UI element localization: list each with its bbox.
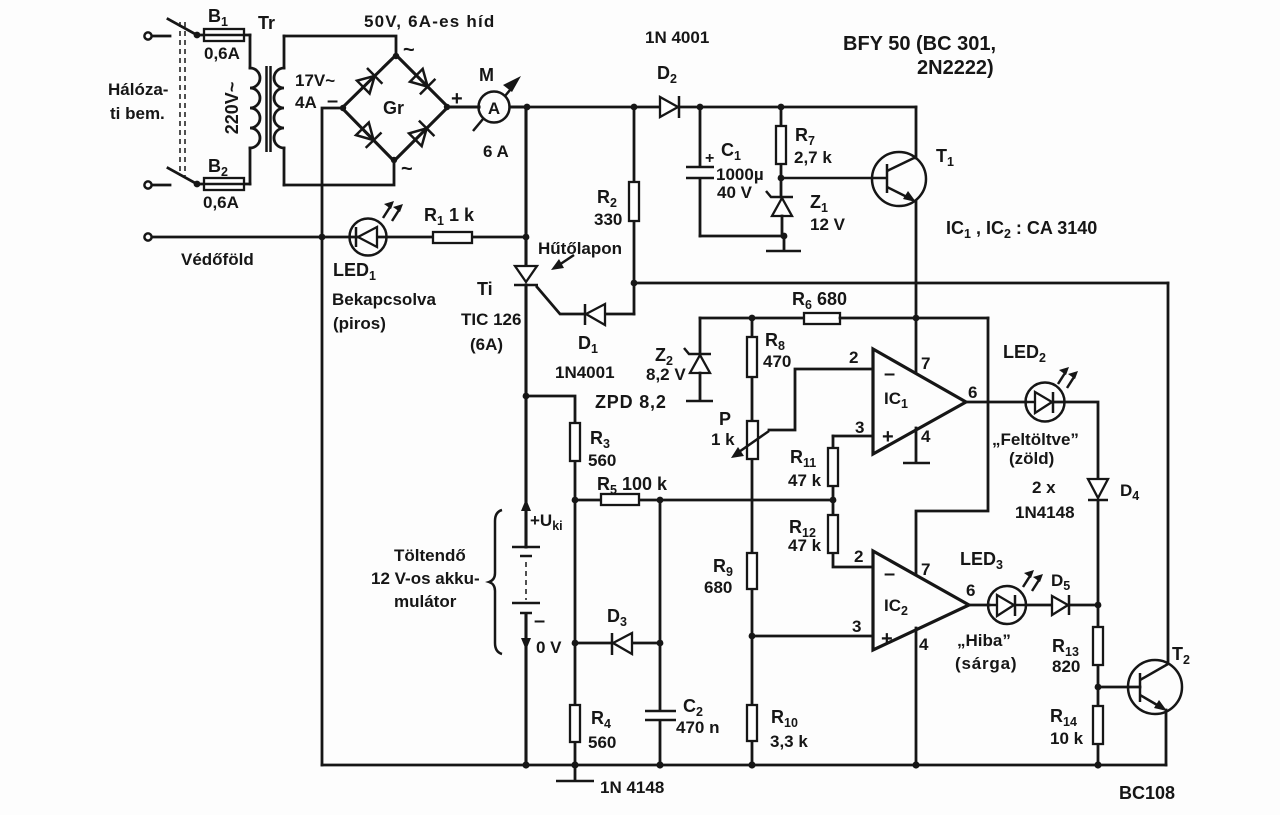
diode D5	[1026, 595, 1098, 615]
arrow +Uki	[521, 499, 531, 511]
svg-text:R5 100 k: R5 100 k	[597, 474, 668, 497]
svg-text:A: A	[488, 99, 500, 118]
svg-text:+: +	[705, 150, 714, 167]
wire V+ down to IC2 pin7	[916, 318, 988, 576]
svg-text:4A: 4A	[295, 93, 317, 112]
label D4	[1120, 481, 1139, 503]
wire to IC2 pin3	[752, 635, 873, 638]
wire thyristor anode	[524, 107, 527, 266]
node D5/D4/R13	[1095, 602, 1102, 609]
svg-text:1N4148: 1N4148	[1015, 503, 1075, 522]
wire IC2 output to LED3	[969, 604, 989, 607]
node left rail / Vedofold	[319, 234, 326, 241]
svg-text:3: 3	[852, 617, 861, 636]
svg-text:7: 7	[921, 560, 930, 579]
svg-text:–: –	[884, 363, 895, 385]
pin 7 (IC1)	[921, 354, 930, 373]
node D3 right / C2	[657, 640, 664, 647]
svg-text:Hálóza-: Hálóza-	[108, 80, 168, 99]
svg-text:BC108: BC108	[1119, 783, 1175, 803]
wire left rail	[321, 237, 324, 765]
resistor R6	[804, 313, 840, 324]
svg-text:40 V: 40 V	[717, 183, 753, 202]
label Feltoltve	[992, 430, 1079, 449]
label 1000u	[716, 165, 764, 184]
zener Z2	[684, 318, 713, 401]
bridge rectifier Gr frame	[342, 55, 448, 161]
svg-text:8,2 V: 8,2 V	[646, 365, 686, 384]
zener Z1	[766, 178, 793, 236]
label 12V	[810, 215, 846, 234]
svg-text:mulátor: mulátor	[394, 592, 457, 611]
resistor R8	[747, 318, 757, 421]
svg-text:1 k: 1 k	[711, 430, 735, 449]
svg-text:ZPD 8,2: ZPD 8,2	[595, 392, 667, 412]
svg-text:P: P	[719, 409, 731, 429]
diode D2	[660, 96, 679, 118]
label +Uki	[530, 511, 563, 533]
svg-text:0,6A: 0,6A	[204, 44, 240, 63]
resistor R3	[570, 423, 580, 643]
label 2,7k	[794, 148, 832, 167]
label D5	[1051, 571, 1070, 593]
svg-text:12 V: 12 V	[810, 215, 846, 234]
wire IC1 output to LED2	[966, 401, 1026, 404]
svg-text:6: 6	[966, 581, 975, 600]
label D2	[657, 63, 677, 86]
bridge vertex dots	[340, 53, 450, 163]
node R3/R5	[572, 497, 579, 504]
wire right rail down to T2 collector	[1167, 283, 1170, 663]
label 330	[594, 210, 622, 229]
battery cell plates	[512, 547, 540, 613]
bridge diode bottom-left	[356, 123, 382, 148]
node R9/R10/IC2 pin3	[749, 633, 756, 640]
svg-text:47 k: 47 k	[788, 471, 822, 490]
node R2 top	[631, 104, 638, 111]
svg-text:–: –	[884, 563, 895, 585]
transformer core	[267, 66, 271, 152]
svg-text:Gr: Gr	[383, 98, 404, 118]
wire T1 emitter to IC1 pin7	[915, 201, 918, 374]
LED1 light arrows	[383, 201, 403, 221]
node R1 right	[523, 234, 530, 241]
svg-text:220V~: 220V~	[222, 82, 242, 135]
resistor R9	[747, 500, 757, 636]
svg-text:ti bem.: ti bem.	[110, 104, 165, 123]
svg-text:680: 680	[704, 578, 732, 597]
label R5 100k	[597, 474, 668, 497]
node R10 bottom	[748, 761, 755, 768]
label Halozati bem.	[108, 80, 168, 123]
resistor R14	[1093, 687, 1103, 765]
label B1	[208, 6, 228, 29]
svg-text:„Hiba”: „Hiba”	[957, 631, 1011, 650]
label 2x 1N4148	[1015, 478, 1075, 522]
label D3	[607, 606, 627, 629]
terminal mains N	[144, 181, 170, 188]
label 820	[1052, 657, 1080, 676]
svg-text:0,6A: 0,6A	[203, 193, 239, 212]
node R2 bottom / D1	[631, 280, 638, 287]
label 560 (R3)	[588, 451, 616, 470]
node T1 emitter / IC supply	[913, 315, 920, 322]
op-amp IC2	[873, 551, 969, 650]
wire P wiper to IC1 pin2	[769, 369, 873, 430]
node D3 left	[572, 640, 579, 647]
svg-text:6 A: 6 A	[483, 142, 509, 161]
thyristor Ti	[514, 266, 585, 314]
label Tr	[258, 13, 275, 33]
label BC108	[1119, 783, 1175, 803]
svg-text:2: 2	[849, 348, 858, 367]
resistor R2	[629, 107, 639, 283]
svg-text:M: M	[479, 65, 494, 85]
node R4 bottom	[571, 761, 578, 768]
label 1k (P)	[711, 430, 735, 449]
terminal Vedofold	[144, 233, 151, 240]
svg-text:4: 4	[919, 635, 929, 654]
node C1/Z1 ground	[781, 233, 788, 240]
label IC1, IC2: CA 3140	[946, 218, 1097, 241]
node R7 top	[778, 104, 785, 111]
diode D4	[1088, 479, 1108, 605]
label C1	[721, 140, 741, 163]
label LED1	[333, 260, 376, 283]
node C2 bottom	[656, 761, 663, 768]
wire B1 to transformer	[197, 34, 250, 37]
label 0V	[536, 638, 562, 657]
svg-text:(zöld): (zöld)	[1009, 449, 1054, 468]
label Z2	[655, 345, 673, 368]
diode D3	[575, 633, 660, 655]
label (piros)	[333, 314, 386, 333]
label plus (bridge)	[451, 88, 463, 110]
node R11/R12	[830, 497, 837, 504]
svg-text:17V~: 17V~	[295, 71, 335, 90]
label R2	[597, 187, 617, 210]
svg-text:10 k: 10 k	[1050, 729, 1084, 748]
label T1	[936, 146, 954, 169]
pin 2 (IC2)	[854, 547, 863, 566]
svg-text:Tr: Tr	[258, 13, 275, 33]
label B2	[208, 156, 228, 179]
svg-text:2: 2	[854, 547, 863, 566]
svg-text:470 n: 470 n	[676, 718, 719, 737]
label 47k (R11)	[788, 471, 822, 490]
node R13/R14/T2 base	[1095, 684, 1102, 691]
wire top rail	[527, 106, 916, 109]
svg-text:(piros): (piros)	[333, 314, 386, 333]
wire bridge plus to ammeter	[448, 105, 479, 108]
label Toltendo 12V-os akkumulator	[371, 546, 480, 611]
node R5 right	[657, 497, 664, 504]
ammeter M	[473, 76, 521, 131]
label R10	[771, 707, 798, 730]
svg-text:~: ~	[403, 39, 415, 61]
label ~ bottom	[401, 158, 413, 180]
label 1N4148 (D3)	[600, 778, 664, 797]
wire R3 branch	[526, 396, 575, 423]
label R9	[713, 556, 733, 579]
svg-text:1N 4001: 1N 4001	[645, 28, 709, 47]
pin 4 (IC1)	[921, 427, 931, 446]
label (zold)	[1009, 449, 1054, 468]
label T2	[1172, 644, 1190, 667]
label 10k	[1050, 729, 1084, 748]
fuse B2	[204, 178, 244, 190]
resistor R7	[776, 107, 786, 178]
label 220V~	[222, 82, 242, 135]
ground (IC1 pin4)	[903, 428, 930, 463]
resistor R11	[828, 436, 838, 500]
label R7	[795, 125, 815, 148]
potentiometer P	[731, 421, 769, 500]
label 3,3k	[770, 732, 808, 751]
ground (Z1/C1)	[766, 236, 801, 251]
svg-text:R1 1 k: R1 1 k	[424, 205, 475, 228]
label 560 (R4)	[588, 733, 616, 752]
pin 4 (IC2)	[919, 635, 929, 654]
brace battery	[489, 510, 502, 654]
wire bottom ground rail	[322, 764, 1166, 767]
label minus (bridge)	[327, 90, 338, 112]
transistor T2	[1128, 660, 1182, 765]
wire gate rail to right	[634, 282, 1168, 285]
svg-text:560: 560	[588, 451, 616, 470]
label R8	[765, 330, 785, 353]
node R14 bottom	[1094, 761, 1101, 768]
label ~ top	[403, 39, 415, 61]
wire LED2 to D4	[1054, 402, 1098, 479]
label R11	[790, 447, 816, 470]
svg-text:Védőföld: Védőföld	[181, 250, 254, 269]
svg-text:(sárga): (sárga)	[955, 654, 1017, 673]
label LED3	[960, 549, 1003, 572]
label R4	[591, 708, 611, 731]
node R7/Z1/T1 base	[778, 175, 785, 182]
label M	[479, 65, 494, 85]
transistor T1	[872, 152, 926, 206]
svg-text:0 V: 0 V	[536, 638, 562, 657]
label Hutolapon	[538, 239, 622, 258]
svg-text:–: –	[534, 610, 545, 632]
node C1 top	[697, 104, 704, 111]
wire C1 bottom to ground node	[700, 235, 784, 238]
svg-text:Bekapcsolva: Bekapcsolva	[332, 290, 436, 309]
pin 7 (IC2)	[921, 560, 930, 579]
label (6A)	[470, 335, 503, 354]
label R3	[590, 428, 610, 451]
transformer secondary winding	[274, 36, 284, 185]
diode D1	[585, 286, 634, 325]
switch pole 1	[168, 19, 200, 38]
LED3	[988, 586, 1026, 624]
label 40V	[717, 183, 753, 202]
arrow Hutolapon	[551, 255, 574, 270]
pin 2 (IC1)	[849, 348, 858, 367]
label BFY50 (BC301, 2N2222)	[843, 33, 996, 79]
svg-text:3: 3	[855, 418, 864, 437]
node battery bottom	[522, 761, 529, 768]
wire T1 collector drop	[915, 107, 918, 158]
svg-text:(6A): (6A)	[470, 335, 503, 354]
label Gr	[383, 98, 404, 118]
label R6 680	[792, 289, 847, 312]
switch pole 2	[168, 168, 200, 187]
LED1	[350, 219, 387, 256]
pin 3 (IC1)	[855, 418, 864, 437]
wire T2 base	[1098, 686, 1140, 689]
svg-text:820: 820	[1052, 657, 1080, 676]
wire Z2 node to R6	[700, 317, 804, 320]
label 0,6A (B2)	[203, 193, 239, 212]
label LED2	[1003, 342, 1046, 365]
label + (C1)	[705, 150, 714, 167]
svg-text:1N4001: 1N4001	[555, 363, 615, 382]
label 680 (R9)	[704, 578, 732, 597]
label Z1	[810, 192, 828, 215]
wire Vedofold rail	[152, 236, 526, 239]
wire R6 to V+ node	[840, 317, 988, 320]
svg-text:560: 560	[588, 733, 616, 752]
resistor R1	[433, 232, 472, 243]
node battery / R3 branch	[523, 393, 530, 400]
label minus (battery)	[534, 610, 545, 632]
label (sarga)	[955, 654, 1017, 673]
node ammeter output	[524, 104, 531, 111]
pin 6 (IC2)	[966, 581, 975, 600]
label R12	[789, 517, 816, 540]
wire C2/D3 branch	[659, 500, 662, 710]
wire T1 base	[781, 177, 887, 180]
svg-text:TIC 126: TIC 126	[461, 310, 521, 329]
label 8,2V	[646, 365, 686, 384]
arrow 0V	[521, 638, 531, 650]
bridge diode top-left	[357, 68, 382, 94]
bridge diode bottom-right	[409, 121, 434, 147]
label 1N4001 (D2)	[645, 28, 709, 47]
svg-text:470: 470	[763, 352, 791, 371]
label 6 A	[483, 142, 509, 161]
LED2	[1026, 383, 1065, 422]
label Ti	[477, 279, 493, 299]
resistor R13	[1093, 605, 1103, 687]
svg-text:BFY 50 (BC 301,: BFY 50 (BC 301,	[843, 33, 996, 55]
svg-text:+: +	[881, 628, 893, 650]
pin 3 (IC2)	[852, 617, 861, 636]
svg-text:R6 680: R6 680	[792, 289, 847, 312]
svg-text:Hűtőlapon: Hűtőlapon	[538, 239, 622, 258]
svg-text:~: ~	[401, 158, 413, 180]
label Bekapcsolva	[332, 290, 436, 309]
resistor R10	[747, 636, 757, 765]
svg-text:Töltendő: Töltendő	[394, 546, 466, 565]
wire thyristor cathode / battery line	[524, 285, 527, 765]
svg-text:7: 7	[921, 354, 930, 373]
svg-text:330: 330	[594, 210, 622, 229]
wire R5 to R11 node	[660, 499, 833, 502]
label R1 1k	[424, 205, 475, 228]
label 470n	[676, 718, 719, 737]
svg-text:50V, 6A-es híd: 50V, 6A-es híd	[364, 12, 495, 31]
switch mechanical coupling (dashed)	[180, 22, 185, 176]
wire B2 to transformer	[197, 183, 250, 186]
wire R11 to IC1 pin3	[833, 435, 873, 438]
resistor R4	[570, 643, 580, 765]
label 0,6A (B1)	[204, 44, 240, 63]
svg-text:Ti: Ti	[477, 279, 493, 299]
resistor R12	[828, 500, 873, 567]
node R8 top	[749, 315, 756, 322]
label 1N4001 (D1)	[555, 363, 615, 382]
svg-text:3,3 k: 3,3 k	[770, 732, 808, 751]
svg-text:2 x: 2 x	[1032, 478, 1056, 497]
label 47k (R12)	[788, 536, 822, 555]
label ZPD8,2	[595, 392, 667, 412]
wire secondary top to bridge	[284, 36, 396, 55]
wire secondary bottom to bridge	[284, 161, 394, 185]
label Vedofold	[181, 250, 254, 269]
wire ammeter to top rail	[510, 105, 527, 108]
wire IC2 pin4 to ground rail	[915, 628, 918, 765]
LED2 light arrows	[1058, 367, 1078, 388]
svg-text:4: 4	[921, 427, 931, 446]
label C2	[683, 696, 703, 719]
svg-text:47 k: 47 k	[788, 536, 822, 555]
svg-text:6: 6	[968, 383, 977, 402]
fuse B1	[204, 29, 244, 41]
capacitor C1	[686, 107, 714, 236]
LED3 light arrows	[1023, 570, 1043, 591]
label R13	[1052, 636, 1079, 659]
label 470	[763, 352, 791, 371]
bridge diode top-right	[410, 69, 435, 95]
svg-text:1000µ: 1000µ	[716, 165, 764, 184]
label P	[719, 409, 731, 429]
svg-text:12 V-os akku-: 12 V-os akku-	[371, 569, 480, 588]
label Hiba	[957, 631, 1011, 650]
node IC2 pin4 bottom	[912, 761, 919, 768]
terminal mains L	[144, 32, 170, 39]
resistor R5	[575, 494, 660, 505]
label D1	[578, 333, 598, 356]
pin 6 (IC1)	[968, 383, 977, 402]
svg-text:2N2222): 2N2222)	[917, 57, 994, 79]
wire bridge minus to left rail	[322, 108, 342, 237]
ground (main)	[556, 765, 594, 781]
svg-text:„Feltöltve”: „Feltöltve”	[992, 430, 1079, 449]
svg-text:2,7 k: 2,7 k	[794, 148, 832, 167]
label R14	[1050, 706, 1077, 729]
svg-text:+: +	[882, 426, 894, 448]
op-amp IC1	[873, 349, 966, 454]
label 17V~ 4A	[295, 71, 335, 112]
transformer primary winding	[250, 35, 260, 184]
label TIC126	[461, 310, 521, 329]
capacitor C2	[645, 711, 676, 765]
svg-text:1N 4148: 1N 4148	[600, 778, 664, 797]
label 50V, 6A-es hid	[364, 12, 495, 31]
